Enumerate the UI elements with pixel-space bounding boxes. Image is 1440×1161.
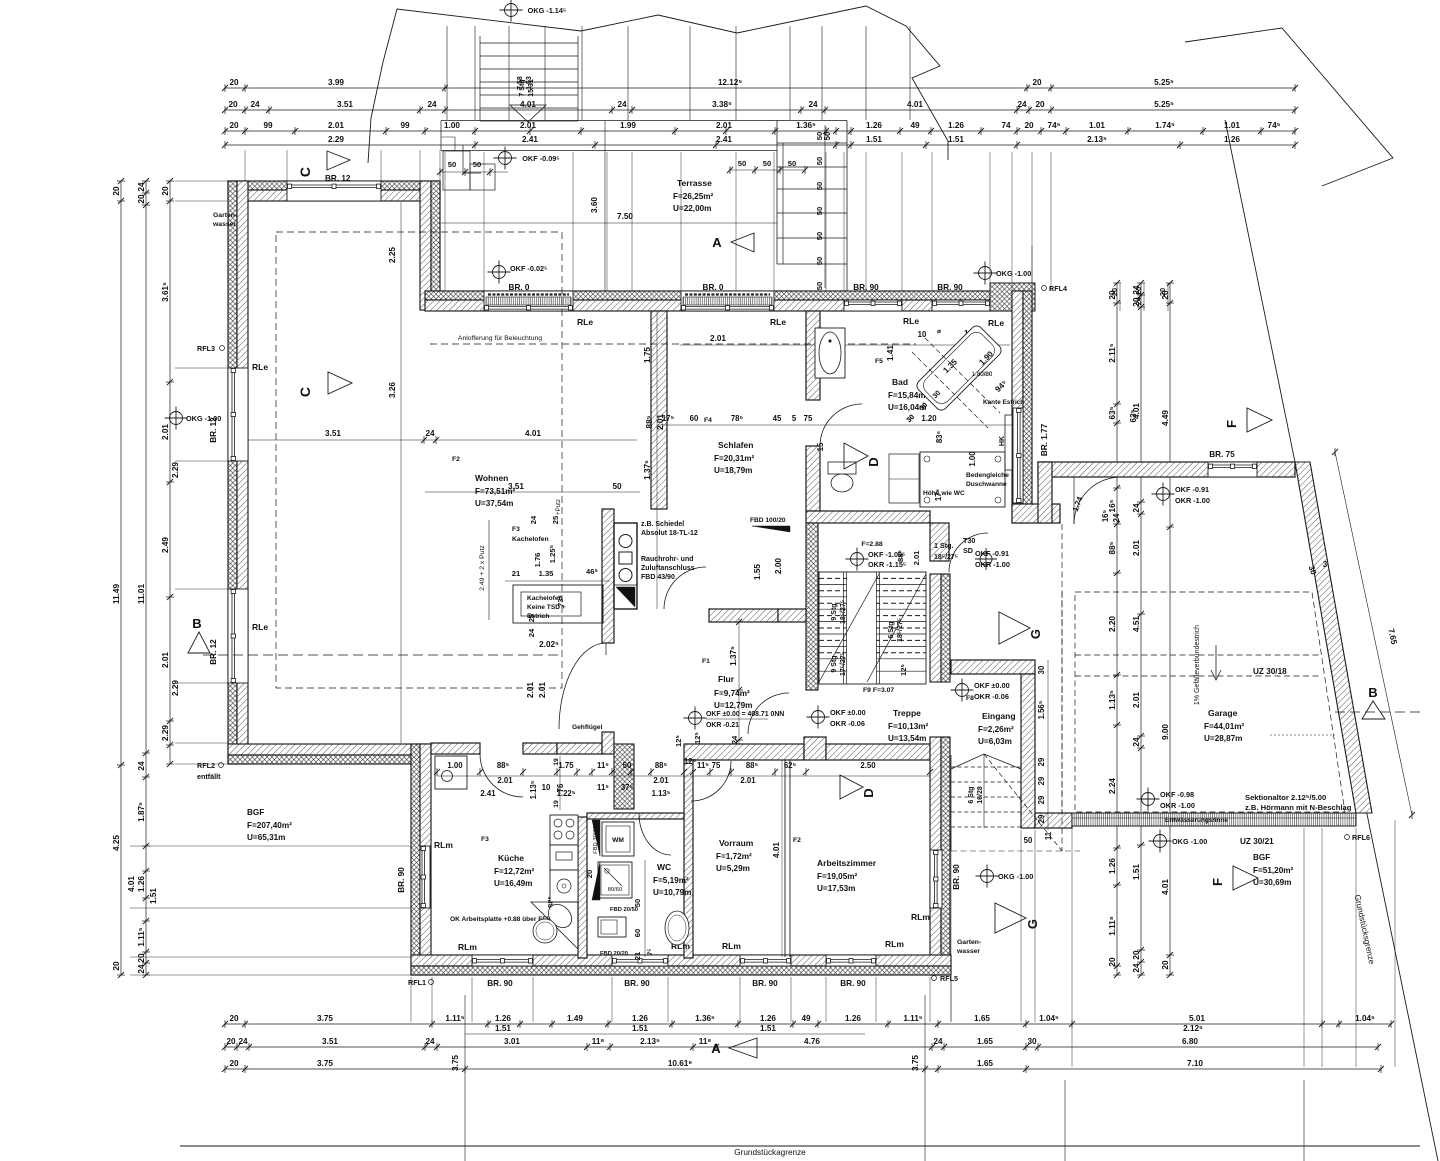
svg-text:wasser: wasser bbox=[212, 221, 236, 228]
wall: vorraum/arbeitszimmer north bbox=[684, 744, 804, 760]
svg-text:18⁵/27⁵: 18⁵/27⁵ bbox=[840, 600, 847, 624]
svg-text:2.01: 2.01 bbox=[161, 424, 170, 440]
svg-text:F=26,25m²: F=26,25m² bbox=[673, 192, 714, 201]
svg-text:3.75: 3.75 bbox=[911, 1055, 920, 1071]
svg-text:50: 50 bbox=[815, 232, 824, 240]
bath tub diagonal bbox=[914, 323, 1003, 412]
svg-text:OKR -1.15⁵: OKR -1.15⁵ bbox=[868, 560, 906, 569]
property boundary bottom bbox=[180, 1145, 1420, 1147]
vertical dim terrace right bbox=[1031, 246, 1033, 291]
svg-text:9 Stg: 9 Stg bbox=[831, 603, 838, 620]
terrace small step LT bbox=[463, 145, 481, 173]
svg-text:83⁵: 83⁵ bbox=[935, 430, 944, 443]
svg-text:16⁵: 16⁵ bbox=[1101, 509, 1110, 522]
svg-text:20: 20 bbox=[229, 1059, 239, 1068]
svg-text:Flur: Flur bbox=[718, 674, 735, 684]
svg-text:FBD 43/90: FBD 43/90 bbox=[641, 574, 675, 581]
svg-text:BR. 75: BR. 75 bbox=[1209, 450, 1235, 459]
svg-text:1.13⁵: 1.13⁵ bbox=[529, 780, 538, 799]
svg-text:5.25⁵: 5.25⁵ bbox=[1154, 78, 1174, 87]
svg-text:20: 20 bbox=[1032, 78, 1042, 87]
svg-text:21: 21 bbox=[633, 951, 642, 960]
survey OKF -0.91 entrance bbox=[980, 553, 992, 565]
svg-text:U=17,53m: U=17,53m bbox=[817, 884, 855, 893]
svg-text:49: 49 bbox=[910, 121, 920, 130]
svg-text:3.75: 3.75 bbox=[317, 1014, 333, 1023]
wall: west jog down to kitchen bbox=[411, 744, 420, 975]
door arc garage corridor bbox=[1074, 477, 1121, 524]
svg-text:4.01: 4.01 bbox=[1161, 879, 1170, 895]
svg-text:RLm: RLm bbox=[911, 912, 930, 922]
svg-text:7.10: 7.10 bbox=[1187, 1059, 1203, 1068]
svg-text:5.25⁵: 5.25⁵ bbox=[1154, 100, 1174, 109]
svg-text:24: 24 bbox=[427, 100, 437, 109]
svg-text:BR. 90: BR. 90 bbox=[952, 864, 961, 890]
svg-text:24: 24 bbox=[238, 1037, 248, 1046]
svg-text:RFL4: RFL4 bbox=[1049, 284, 1067, 293]
svg-text:1.65: 1.65 bbox=[977, 1059, 993, 1068]
svg-text:1.00: 1.00 bbox=[968, 451, 977, 467]
wall: eingang south block bbox=[1035, 813, 1072, 828]
svg-text:1.80/80: 1.80/80 bbox=[972, 371, 993, 378]
right dimension column 2 bbox=[1140, 283, 1142, 975]
svg-text:OKF -0.98: OKF -0.98 bbox=[1160, 790, 1194, 799]
svg-text:2.01: 2.01 bbox=[328, 121, 344, 130]
svg-text:1.26: 1.26 bbox=[632, 1014, 648, 1023]
svg-text:88⁵: 88⁵ bbox=[655, 761, 668, 770]
svg-text:F2: F2 bbox=[452, 456, 460, 463]
wall: stair west bbox=[806, 523, 818, 690]
left dimension column inner bbox=[169, 181, 171, 764]
svg-text:50: 50 bbox=[448, 160, 456, 169]
svg-text:20: 20 bbox=[1161, 960, 1170, 970]
svg-text:1.51: 1.51 bbox=[632, 1024, 648, 1033]
svg-text:3.61⁵: 3.61⁵ bbox=[161, 282, 170, 302]
flur vertical dims bbox=[738, 618, 740, 744]
svg-text:50: 50 bbox=[473, 160, 481, 169]
svg-text:Wohnen: Wohnen bbox=[475, 473, 508, 483]
svg-text:1.13⁵: 1.13⁵ bbox=[1108, 690, 1117, 710]
svg-text:1.26: 1.26 bbox=[1224, 135, 1240, 144]
staircase treads bbox=[819, 572, 926, 684]
svg-text:20: 20 bbox=[1024, 121, 1034, 130]
door arc bad bbox=[820, 404, 862, 446]
svg-text:1.20: 1.20 bbox=[921, 414, 937, 423]
svg-text:Arbeitszimmer: Arbeitszimmer bbox=[817, 858, 877, 868]
svg-text:37⁵: 37⁵ bbox=[621, 783, 634, 792]
svg-text:U=22,00m: U=22,00m bbox=[673, 204, 711, 213]
svg-text:6.80: 6.80 bbox=[1182, 1037, 1198, 1046]
svg-text:17⁵: 17⁵ bbox=[662, 414, 675, 423]
svg-text:24: 24 bbox=[808, 100, 818, 109]
svg-text:OKF ±0.00: OKF ±0.00 bbox=[830, 708, 866, 717]
niche dim line bbox=[559, 756, 561, 810]
svg-text:F=20,31m²: F=20,31m² bbox=[714, 454, 755, 463]
svg-text:F=1,72m²: F=1,72m² bbox=[716, 852, 752, 861]
svg-text:BR. 90: BR. 90 bbox=[752, 979, 778, 988]
svg-text:B: B bbox=[192, 616, 201, 631]
svg-text:4.01: 4.01 bbox=[127, 876, 136, 892]
svg-text:1.51: 1.51 bbox=[495, 1024, 511, 1033]
wc fixtures bbox=[602, 822, 634, 856]
svg-text:20: 20 bbox=[112, 961, 121, 971]
svg-text:24,20: 24,20 bbox=[1134, 287, 1143, 306]
svg-text:24: 24 bbox=[1017, 100, 1027, 109]
svg-text:9 Stg: 9 Stg bbox=[831, 655, 838, 672]
svg-text:2.41: 2.41 bbox=[716, 135, 732, 144]
wc toilet bad bbox=[828, 462, 856, 474]
svg-text:4.01: 4.01 bbox=[907, 100, 923, 109]
svg-text:SD: SD bbox=[963, 546, 973, 555]
garage corridor west stub bbox=[1038, 462, 1052, 523]
svg-text:50: 50 bbox=[815, 257, 824, 265]
svg-text:6 Stg: 6 Stg bbox=[888, 621, 895, 638]
svg-text:1.87⁵: 1.87⁵ bbox=[137, 802, 146, 822]
svg-text:2.01: 2.01 bbox=[497, 776, 513, 785]
svg-text:24: 24 bbox=[137, 182, 146, 192]
svg-text:2.29: 2.29 bbox=[171, 462, 180, 478]
svg-text:19: 19 bbox=[553, 800, 560, 808]
svg-text:F9 F=3.07: F9 F=3.07 bbox=[863, 687, 894, 694]
witness lines bottom bbox=[410, 977, 412, 1022]
svg-text:1.26: 1.26 bbox=[948, 121, 964, 130]
svg-text:25: 25 bbox=[527, 613, 536, 622]
svg-text:7.58: 7.58 bbox=[517, 76, 524, 90]
svg-text:U=6,03m: U=6,03m bbox=[978, 737, 1012, 746]
door arc wc bbox=[639, 813, 671, 855]
svg-text:4.25: 4.25 bbox=[112, 835, 121, 851]
top dimension row 2 bbox=[225, 109, 1295, 111]
svg-text:1.11⁵: 1.11⁵ bbox=[445, 1014, 464, 1023]
svg-text:OKF -0.91: OKF -0.91 bbox=[975, 549, 1009, 558]
svg-text:4.01: 4.01 bbox=[525, 429, 541, 438]
svg-text:17⁵/27⁵: 17⁵/27⁵ bbox=[840, 652, 847, 676]
wohnen dims bbox=[248, 439, 637, 441]
svg-text:46⁵: 46⁵ bbox=[586, 567, 598, 576]
svg-text:BR. 12: BR. 12 bbox=[209, 417, 218, 443]
terrace steps upper-left (7 Stg) bbox=[480, 42, 578, 44]
svg-text:C: C bbox=[297, 167, 313, 177]
garage east slanted wall bbox=[1295, 462, 1372, 813]
svg-text:2.01: 2.01 bbox=[912, 550, 921, 566]
svg-text:Absolut 18-TL-12: Absolut 18-TL-12 bbox=[641, 530, 698, 537]
svg-text:z.B. Hörmann mit N-Beschlag: z.B. Hörmann mit N-Beschlag bbox=[1245, 803, 1352, 812]
svg-text:5.01: 5.01 bbox=[1189, 1014, 1205, 1023]
svg-text:UZ 30/21: UZ 30/21 bbox=[1240, 837, 1274, 846]
svg-text:U=16,49m: U=16,49m bbox=[494, 879, 532, 888]
svg-text:OKG -1.00: OKG -1.00 bbox=[998, 872, 1033, 881]
svg-text:19: 19 bbox=[553, 758, 560, 766]
svg-text:18⁵/27⁵: 18⁵/27⁵ bbox=[934, 554, 958, 561]
svg-text:1.36⁵: 1.36⁵ bbox=[796, 121, 816, 130]
stair rails / eye bbox=[847, 574, 877, 682]
svg-text:1.41: 1.41 bbox=[886, 345, 895, 361]
svg-text:OKF -0.02⁵: OKF -0.02⁵ bbox=[510, 264, 548, 273]
svg-text:63⁵: 63⁵ bbox=[1108, 406, 1117, 419]
svg-text:1.49: 1.49 bbox=[567, 1014, 583, 1023]
svg-text:OKF -1.09⁵: OKF -1.09⁵ bbox=[868, 550, 906, 559]
right dimension column 1 bbox=[1116, 283, 1118, 975]
svg-text:Kante Estrich: Kante Estrich bbox=[983, 399, 1024, 406]
svg-text:F=207,40m²: F=207,40m² bbox=[247, 821, 292, 830]
svg-text:1% Gefälleverbundestrich: 1% Gefälleverbundestrich bbox=[1194, 625, 1201, 705]
survey OKF -1.09 stairs bbox=[851, 553, 864, 566]
svg-text:F2: F2 bbox=[793, 837, 801, 844]
svg-text:1.00: 1.00 bbox=[444, 121, 460, 130]
wohnen dashed ceiling box bbox=[276, 232, 562, 688]
svg-text:OKR -0.06: OKR -0.06 bbox=[830, 719, 865, 728]
svg-text:1.75: 1.75 bbox=[643, 347, 652, 363]
arrow triangle top steps bbox=[510, 105, 546, 122]
svg-text:1.25⁵: 1.25⁵ bbox=[548, 544, 557, 563]
north wall annotations bbox=[493, 266, 506, 279]
svg-text:24: 24 bbox=[425, 1037, 435, 1046]
svg-text:7.50: 7.50 bbox=[617, 212, 633, 221]
svg-text:11⁸: 11⁸ bbox=[592, 1037, 605, 1046]
svg-text:F8: F8 bbox=[966, 695, 974, 702]
slant dimension line 7.65 bbox=[1335, 452, 1412, 815]
svg-text:2.11⁵: 2.11⁵ bbox=[1108, 343, 1117, 362]
terrace steps right block bbox=[776, 121, 778, 265]
svg-text:B: B bbox=[1368, 685, 1377, 700]
svg-text:3.75: 3.75 bbox=[317, 1059, 333, 1068]
svg-text:1.51: 1.51 bbox=[760, 1024, 776, 1033]
svg-text:entfällt: entfällt bbox=[197, 772, 221, 781]
wall: main north bbox=[425, 291, 1032, 300]
svg-text:20: 20 bbox=[229, 1014, 239, 1023]
svg-text:1.00: 1.00 bbox=[447, 761, 463, 770]
svg-text:2.29: 2.29 bbox=[171, 680, 180, 696]
svg-text:F=12,72m²: F=12,72m² bbox=[494, 867, 535, 876]
bad dims bbox=[680, 344, 1010, 346]
svg-text:OKR -1.00: OKR -1.00 bbox=[1160, 801, 1195, 810]
svg-text:BR. 12: BR. 12 bbox=[209, 639, 218, 665]
svg-text:1.26: 1.26 bbox=[495, 1014, 511, 1023]
svg-text:20: 20 bbox=[1132, 950, 1141, 960]
svg-text:A: A bbox=[712, 235, 722, 250]
svg-text:11.01: 11.01 bbox=[137, 584, 146, 604]
svg-text:24: 24 bbox=[425, 429, 435, 438]
svg-text:24: 24 bbox=[137, 964, 146, 974]
svg-text:U=30,69m: U=30,69m bbox=[1253, 878, 1291, 887]
terrain vertical grid lines bbox=[446, 26, 448, 120]
svg-text:Grundstückagrenze: Grundstückagrenze bbox=[734, 1148, 806, 1157]
svg-text:50: 50 bbox=[815, 282, 824, 290]
svg-text:29: 29 bbox=[1037, 776, 1046, 785]
svg-text:1.22⁵: 1.22⁵ bbox=[557, 789, 576, 798]
svg-text:3.51: 3.51 bbox=[337, 100, 353, 109]
survey point OKG -1.14 bbox=[505, 4, 518, 17]
svg-text:1 Stg.: 1 Stg. bbox=[934, 541, 954, 550]
svg-text:18⁵/27⁵: 18⁵/27⁵ bbox=[897, 618, 904, 642]
wall: living wing east upper bbox=[420, 181, 431, 310]
treppe level OKF+-0.00 bbox=[812, 711, 825, 724]
wall: south (bottom) bbox=[411, 955, 951, 966]
svg-text:3.26: 3.26 bbox=[388, 382, 397, 398]
svg-text:50: 50 bbox=[815, 182, 824, 190]
svg-text:U=13,54m: U=13,54m bbox=[888, 734, 926, 743]
svg-text:Garten-: Garten- bbox=[213, 212, 237, 219]
svg-text:3.01: 3.01 bbox=[504, 1037, 520, 1046]
wall: vorraum/arbeitszimmer partition bbox=[784, 760, 786, 957]
svg-text:F=51,20m²: F=51,20m² bbox=[1253, 866, 1294, 875]
svg-text:Kachelofen: Kachelofen bbox=[512, 536, 549, 543]
svg-text:RLm: RLm bbox=[722, 941, 741, 951]
svg-text:7⁵: 7⁵ bbox=[647, 949, 654, 956]
door arc kitchen bbox=[480, 754, 523, 797]
garage north wall bbox=[1038, 462, 1295, 477]
svg-text:FBD 30/76: FBD 30/76 bbox=[593, 826, 599, 854]
door arc flur-vorraum bbox=[748, 693, 789, 734]
svg-text:2.01: 2.01 bbox=[161, 652, 170, 668]
svg-text:Entwässerungsrinne: Entwässerungsrinne bbox=[1165, 817, 1228, 824]
svg-text:F: F bbox=[1224, 420, 1239, 428]
svg-text:RLe: RLe bbox=[252, 622, 268, 632]
svg-text:50: 50 bbox=[788, 159, 796, 168]
terrace top steps dims bbox=[730, 169, 805, 171]
shower bbox=[920, 452, 1005, 507]
svg-text:2.13⁵: 2.13⁵ bbox=[1087, 135, 1107, 144]
svg-text:Garten-: Garten- bbox=[957, 939, 981, 946]
svg-text:RFL1: RFL1 bbox=[408, 978, 426, 987]
svg-text:99: 99 bbox=[263, 121, 273, 130]
svg-text:2.41: 2.41 bbox=[480, 789, 496, 798]
svg-text:Anlofferung für Beleuchtung: Anlofferung für Beleuchtung bbox=[458, 335, 542, 342]
svg-text:2.29: 2.29 bbox=[328, 135, 344, 144]
svg-text:UZ 30/18: UZ 30/18 bbox=[1253, 667, 1287, 676]
svg-text:50: 50 bbox=[633, 899, 642, 907]
svg-text:60: 60 bbox=[633, 929, 642, 937]
bottom dimension row 2 bbox=[225, 1046, 1378, 1048]
svg-text:24: 24 bbox=[1132, 737, 1141, 747]
svg-text:D: D bbox=[866, 457, 881, 466]
svg-text:2.20: 2.20 bbox=[1108, 616, 1117, 632]
svg-text:20: 20 bbox=[1035, 100, 1045, 109]
svg-text:BR. 12: BR. 12 bbox=[325, 174, 351, 183]
terrace west steps detail bbox=[443, 151, 470, 190]
sink unit at kitchen north wall bbox=[435, 756, 467, 789]
svg-text:1.01: 1.01 bbox=[1089, 121, 1105, 130]
svg-text:U=65,31m: U=65,31m bbox=[247, 833, 285, 842]
svg-text:3.38⁵: 3.38⁵ bbox=[712, 100, 732, 109]
svg-text:24: 24 bbox=[250, 100, 260, 109]
svg-text:12⁵: 12⁵ bbox=[674, 735, 683, 747]
svg-text:BR. 90: BR. 90 bbox=[487, 979, 513, 988]
svg-text:BR. 1.77: BR. 1.77 bbox=[1040, 423, 1049, 456]
svg-text:30: 30 bbox=[1027, 1037, 1037, 1046]
bottom dimension row 1b bbox=[465, 1033, 865, 1035]
svg-text:20: 20 bbox=[226, 1037, 236, 1046]
svg-text:2.01: 2.01 bbox=[716, 121, 732, 130]
chimney block bbox=[614, 523, 637, 609]
svg-text:74⁵: 74⁵ bbox=[1268, 121, 1281, 130]
svg-text:Bedengleiche: Bedengleiche bbox=[966, 472, 1009, 479]
svg-text:Garage: Garage bbox=[1208, 708, 1238, 718]
svg-text:1.51: 1.51 bbox=[1132, 864, 1141, 880]
svg-text:WM: WM bbox=[612, 837, 624, 844]
svg-text:A: A bbox=[711, 1041, 721, 1056]
schrank bad bbox=[889, 454, 919, 503]
svg-text:2.01: 2.01 bbox=[538, 682, 547, 698]
svg-text:OKR -0.06: OKR -0.06 bbox=[974, 692, 1009, 701]
svg-text:F=10,13m²: F=10,13m² bbox=[888, 722, 929, 731]
svg-text:11: 11 bbox=[1044, 831, 1053, 840]
svg-text:RLe: RLe bbox=[252, 362, 268, 372]
wall: stair east two-leaf bbox=[930, 574, 941, 682]
right dimension column 3 bbox=[1169, 283, 1171, 975]
svg-text:88⁵: 88⁵ bbox=[645, 415, 654, 428]
svg-text:U=28,87m: U=28,87m bbox=[1204, 734, 1242, 743]
svg-text:D: D bbox=[861, 788, 876, 797]
svg-text:78⁵: 78⁵ bbox=[731, 414, 744, 423]
terrace outline bbox=[441, 120, 847, 122]
terrain outline top bbox=[383, 6, 948, 160]
wall: arbeitszimmer east bbox=[930, 737, 941, 975]
svg-text:88⁵: 88⁵ bbox=[746, 761, 759, 770]
svg-text:1.37⁵: 1.37⁵ bbox=[643, 460, 652, 480]
svg-text:11⁵: 11⁵ bbox=[697, 761, 709, 770]
section marker D bad bbox=[844, 443, 868, 469]
svg-text:1.51: 1.51 bbox=[948, 135, 964, 144]
svg-text:2.41: 2.41 bbox=[522, 135, 538, 144]
svg-text:5: 5 bbox=[792, 414, 797, 423]
svg-text:2.01: 2.01 bbox=[520, 121, 536, 130]
svg-text:F1: F1 bbox=[702, 658, 710, 665]
svg-text:OKR -1.00: OKR -1.00 bbox=[975, 560, 1010, 569]
bottom dimension row 1 bbox=[225, 1023, 1391, 1025]
pier crosshatch kitchen/wc bbox=[614, 744, 634, 809]
svg-text:OKG -1.00: OKG -1.00 bbox=[996, 269, 1031, 278]
top dimension row 3 bbox=[225, 130, 1295, 132]
wall: schlafen west bbox=[651, 311, 667, 509]
svg-text:3.75: 3.75 bbox=[451, 1055, 460, 1071]
svg-text:2.01: 2.01 bbox=[1132, 692, 1141, 708]
svg-text:3.51: 3.51 bbox=[325, 429, 341, 438]
svg-text:3: 3 bbox=[1323, 560, 1328, 569]
svg-text:OKG -1.14⁵: OKG -1.14⁵ bbox=[528, 6, 567, 15]
svg-text:2.49: 2.49 bbox=[161, 537, 170, 553]
svg-text:9.00: 9.00 bbox=[1161, 724, 1170, 740]
svg-text:RLm: RLm bbox=[458, 942, 477, 952]
svg-text:1.04⁵: 1.04⁵ bbox=[1355, 1014, 1375, 1023]
svg-text:wasser: wasser bbox=[956, 948, 980, 955]
svg-text:Höhe wie WC: Höhe wie WC bbox=[923, 490, 965, 497]
door arc vorraum bbox=[691, 761, 731, 801]
svg-text:F: F bbox=[1210, 878, 1225, 886]
wall: mid horizontal (kitchen north) bbox=[431, 743, 480, 754]
svg-text:73⁵: 73⁵ bbox=[556, 595, 565, 607]
svg-text:1.11⁵: 1.11⁵ bbox=[903, 1014, 922, 1023]
svg-text:1.26: 1.26 bbox=[1108, 858, 1117, 874]
wall: wc/kitchen bbox=[578, 817, 587, 958]
svg-text:50: 50 bbox=[823, 131, 832, 140]
flur level bbox=[689, 712, 702, 725]
svg-text:2.01: 2.01 bbox=[526, 682, 535, 698]
svg-text:F=19,05m²: F=19,05m² bbox=[817, 872, 858, 881]
svg-text:50: 50 bbox=[612, 482, 622, 491]
svg-text:F=9,74m²: F=9,74m² bbox=[714, 689, 750, 698]
svg-text:1.75: 1.75 bbox=[558, 761, 574, 770]
svg-text:25: 25 bbox=[551, 515, 560, 524]
svg-text:10: 10 bbox=[918, 330, 927, 339]
svg-text:OKF -0.09⁵: OKF -0.09⁵ bbox=[522, 154, 560, 163]
svg-text:15: 15 bbox=[816, 442, 825, 451]
top dimension row 4 bbox=[225, 144, 1295, 146]
svg-text:OKG -1.00: OKG -1.00 bbox=[1172, 837, 1207, 846]
door arc living room bbox=[559, 643, 606, 729]
svg-text:BR. 0: BR. 0 bbox=[509, 283, 530, 292]
svg-text:74: 74 bbox=[1001, 121, 1011, 130]
